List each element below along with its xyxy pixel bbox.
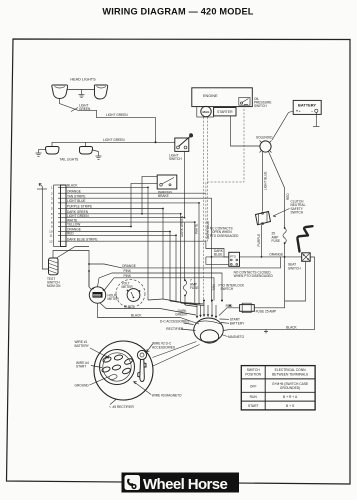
svg-text:TAIL LIGHTS: TAIL LIGHTS [60, 158, 79, 162]
svg-text:FUSE 25 AMP: FUSE 25 AMP [256, 309, 277, 313]
wire dark blue into pto [206, 241, 229, 257]
svg-text:MAGNETO: MAGNETO [228, 335, 245, 339]
pin numbers 1-12 [49, 186, 53, 244]
svg-text:B + R + A: B + R + A [283, 395, 298, 399]
light switch [171, 133, 193, 151]
terminal 1 [102, 356, 111, 363]
svg-text:11: 11 [49, 234, 52, 238]
wire pin9 yellow [66, 183, 157, 226]
wire headlight feed light green [60, 99, 156, 143]
junction dots on bundle [130, 187, 200, 237]
oil pressure switch [239, 98, 250, 106]
ignition terminal wires [197, 302, 216, 317]
junction dots meters [88, 263, 140, 292]
terminal 4 [101, 366, 110, 373]
test switch coil [49, 258, 59, 275]
wire red down to fuse holder [254, 243, 284, 308]
svg-text:RED: RED [67, 232, 74, 236]
svg-text:YELLOW: YELLOW [67, 223, 80, 227]
svg-text:PURPLE STRIPE: PURPLE STRIPE [67, 205, 92, 209]
svg-text:GREEN: GREEN [79, 107, 91, 111]
svg-text:BETWEEN TERMINALS: BETWEEN TERMINALS [272, 372, 309, 376]
engine box [192, 88, 253, 107]
fuse holder box [240, 303, 255, 312]
wires converge to ignition [148, 299, 204, 307]
clutch label arrow [273, 209, 290, 217]
wire fuse holder to ignition red [219, 308, 240, 316]
wire pin6 dark green [66, 214, 181, 303]
pto interlock switch [229, 252, 240, 266]
headlight right [94, 85, 108, 99]
wire between headlights [68, 89, 95, 91]
svg-text:B + S: B + S [286, 404, 295, 408]
wire pin1 black [66, 187, 148, 300]
wire solenoid down light blue [262, 152, 264, 212]
svg-text:GROUNDED): GROUNDED) [280, 386, 300, 390]
terminal 5 [112, 364, 121, 371]
tail light right [79, 147, 92, 155]
svg-text:LIGHT BLUE: LIGHT BLUE [67, 199, 86, 203]
wire battery minus to chassis [313, 112, 320, 126]
wire clutch down purple [261, 225, 263, 257]
magneto MAG [197, 106, 214, 117]
svg-text:BLACK: BLACK [131, 314, 142, 318]
svg-text:SWITCH: SWITCH [288, 266, 301, 270]
parking brake switch [157, 175, 177, 189]
svg-text:SWITCH: SWITCH [254, 104, 267, 108]
wire seat switch right black down [231, 257, 315, 329]
key bow [137, 350, 146, 359]
wire light switch down [183, 151, 185, 280]
wire coil top risers [53, 251, 89, 288]
svg-text:SWITCH: SWITCH [169, 157, 182, 161]
wire starter to solenoid [231, 116, 260, 146]
svg-text:DARK GREEN: DARK GREEN [180, 215, 184, 237]
wire tail light run light green [52, 142, 171, 146]
junction cross bottom [264, 329, 268, 333]
svg-text:STARTER: STARTER [217, 110, 233, 114]
wire #2 dc accessories pointer [147, 344, 153, 352]
svg-text:PTO: PTO [230, 254, 237, 258]
svg-text:SWITCH: SWITCH [291, 211, 304, 215]
volt meter gauge [127, 289, 140, 302]
svg-text:D-C ACCESSORIES: D-C ACCESSORIES [160, 319, 189, 323]
key blade [138, 359, 146, 381]
7 amp fuse [183, 280, 186, 295]
svg-text:MOM ON: MOM ON [47, 284, 61, 288]
arrow chassis top-left [39, 184, 42, 187]
svg-text:START: START [76, 365, 86, 369]
svg-text:12: 12 [49, 239, 53, 243]
seat [297, 226, 312, 251]
svg-text:BATTERY: BATTERY [75, 344, 90, 348]
svg-text:FUSE: FUSE [190, 286, 199, 290]
svg-text:GROUND: GROUND [75, 383, 90, 387]
wire pin2 orange [66, 192, 206, 194]
wire pin4 light blue [66, 203, 199, 300]
pointer lines to key circle [153, 342, 200, 367]
hour meter [89, 287, 105, 303]
svg-text:OFF: OFF [250, 384, 257, 388]
wire black meter 1 [100, 303, 196, 315]
wire solenoid down red [269, 152, 285, 229]
svg-text:ORANGE: ORANGE [122, 264, 136, 268]
headlight left [52, 85, 68, 99]
ignition switch body [194, 318, 224, 343]
wire left riser to connector [42, 187, 48, 270]
key switch outer circle [94, 341, 153, 400]
ignition terminal arrowheads [196, 314, 217, 318]
svg-text:TAN STRIPE: TAN STRIPE [67, 194, 86, 198]
svg-text:FUSE: FUSE [272, 239, 281, 243]
ground tail left [36, 150, 46, 157]
svg-text:MAG: MAG [203, 110, 211, 114]
seat switch [302, 253, 311, 261]
wire seat switch bottom to red [285, 261, 306, 301]
svg-text:ENGINE: ENGINE [203, 94, 218, 98]
wire pto lower left [206, 257, 229, 264]
clutch neutral safety switch [256, 212, 271, 225]
svg-text:BRAKE: BRAKE [158, 194, 169, 198]
terminal 7 [108, 374, 117, 381]
wheel horse logo [122, 473, 240, 494]
wire 7a fuse continue [183, 280, 186, 305]
wire orange to meters [89, 257, 281, 268]
svg-text:BLUE: BLUE [214, 252, 222, 256]
svg-text:RUN: RUN [250, 395, 258, 399]
wire ignition to black run [223, 329, 231, 330]
svg-text:WIRE #3 MAGNETO: WIRE #3 MAGNETO [152, 394, 182, 398]
svg-text:SOLENOID: SOLENOID [256, 136, 273, 140]
svg-text:0000: 0000 [93, 294, 101, 298]
svg-text:PTO DISENGAGED: PTO DISENGAGED [210, 234, 239, 238]
terminal 3 [124, 358, 134, 366]
svg-text:DARK BLUE STRIPE: DARK BLUE STRIPE [67, 237, 97, 241]
wire black meter 2 [98, 303, 200, 324]
wire pink 2 [104, 278, 214, 301]
ground tail right [93, 150, 102, 159]
ground headlights [79, 90, 85, 98]
svg-text:WHITE: WHITE [195, 224, 199, 234]
wire pin7 light green [66, 217, 184, 219]
svg-text:SWITCH: SWITCH [221, 287, 234, 291]
svg-text:PINK: PINK [124, 274, 132, 278]
svg-text:START: START [248, 404, 259, 408]
wire coil to hourmeter [89, 271, 92, 290]
svg-text:RED: RED [286, 193, 290, 200]
wire parking brake left upper [142, 176, 157, 213]
starter [214, 108, 236, 116]
battery [293, 100, 321, 114]
svg-text:GREEN: GREEN [175, 313, 187, 317]
wire pin11 red [66, 235, 176, 302]
junction dot [155, 141, 157, 143]
wire battery plus to solenoid [272, 111, 293, 140]
wire pin3 tan stripe [66, 198, 212, 257]
svg-text:PURPLE: PURPLE [257, 234, 261, 247]
svg-text:Wheel Horse: Wheel Horse [143, 476, 228, 493]
svg-text:BATTERY: BATTERY [230, 321, 245, 325]
svg-text:ACCESSORIES: ACCESSORIES [152, 345, 175, 349]
svg-text:LIGHT GREEN: LIGHT GREEN [103, 138, 125, 142]
svg-text:POSITION: POSITION [245, 372, 261, 376]
svg-text:PINK: PINK [124, 269, 132, 273]
switch table [241, 366, 315, 410]
terminal 6 [122, 367, 132, 375]
svg-text:LIGHT GREEN: LIGHT GREEN [67, 214, 89, 218]
wire pin12 dark blue stripe [66, 240, 206, 242]
wire pin10 orange [66, 232, 170, 302]
wire pink 1 [98, 273, 223, 301]
wire oil pressure switch down dashed [206, 105, 244, 241]
connector body [61, 185, 67, 247]
volt meter dashed oval [116, 280, 145, 308]
svg-text:WHITE: WHITE [67, 218, 77, 222]
wire pin5 purple stripe [66, 209, 163, 300]
wire pin8 white [66, 222, 195, 303]
junction dots orange run [211, 256, 286, 258]
svg-text:↖ #5 RECTIFIER: ↖ #5 RECTIFIER [109, 405, 135, 409]
key switch inner body [100, 350, 135, 385]
fuse 25 amp on red wire [283, 228, 286, 243]
svg-text:LIGHT BLUE: LIGHT BLUE [264, 171, 268, 190]
solenoid [260, 141, 272, 153]
svg-text:HEAD LIGHTS: HEAD LIGHTS [70, 78, 96, 82]
wire orange run to seat switch [206, 256, 302, 258]
svg-text:WIRING DIAGRAM — 420 MODEL: WIRING DIAGRAM — 420 MODEL [102, 7, 253, 17]
svg-text:BATTERY: BATTERY [298, 102, 316, 107]
terminal 2 [114, 354, 123, 361]
wire tan down [211, 257, 213, 302]
pin tick marks [58, 187, 66, 241]
svg-text:BLACK: BLACK [124, 305, 135, 309]
svg-text:WHEN PTO DISENGAGED: WHEN PTO DISENGAGED [234, 274, 274, 278]
tail light left [45, 147, 59, 155]
svg-text:BLACK: BLACK [67, 184, 78, 188]
terminal dots [184, 300, 231, 307]
svg-text:BLACK: BLACK [286, 325, 297, 329]
wire mag dashed down pair [203, 117, 205, 303]
svg-text:LIGHT GREEN: LIGHT GREEN [106, 113, 128, 117]
svg-text:ORANGE: ORANGE [269, 253, 283, 257]
svg-text:ORANGE: ORANGE [67, 189, 81, 193]
